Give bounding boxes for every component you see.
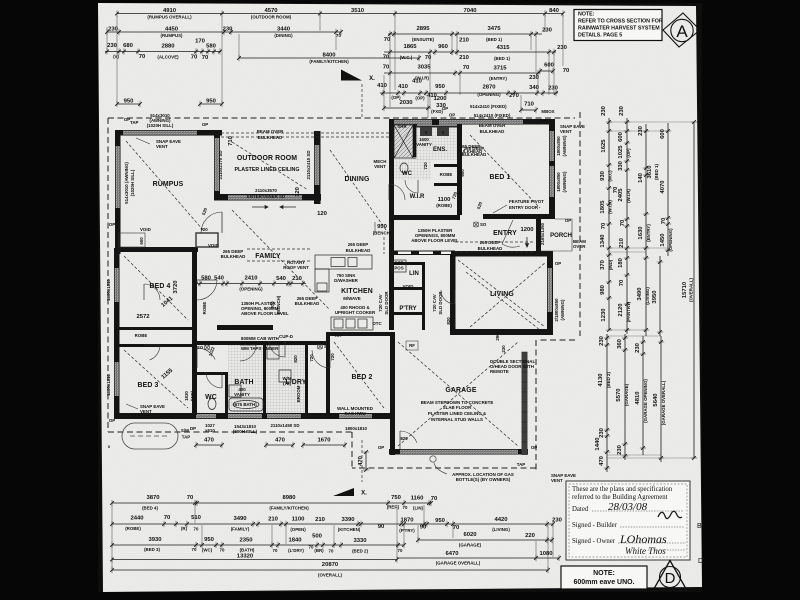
svg-text:90: 90 [378,524,385,530]
top dimension row 3 left [105,39,222,62]
svg-text:8400: 8400 [322,52,336,58]
window 1800x1810 bed3 [115,362,119,396]
svg-text:REFER TO CROSS SECTION FOR: REFER TO CROSS SECTION FOR [578,19,663,25]
svg-text:500: 500 [312,534,323,540]
svg-text:820: 820 [293,355,298,363]
svg-text:FAMILY: FAMILY [255,253,281,260]
feature pivot entry door [502,220,520,247]
window 514x2410 fixed [463,120,523,124]
svg-text:1625: 1625 [601,139,607,153]
svg-text:600: 600 [660,128,666,139]
garage rear door [400,431,417,443]
svg-text:4910: 4910 [163,8,177,14]
svg-text:1800x850: 1800x850 [556,172,561,192]
950 window dims over rumpus [115,98,142,107]
svg-text:70: 70 [187,495,194,501]
svg-text:720: 720 [309,354,314,362]
svg-text:13320: 13320 [237,554,254,560]
svg-text:4070: 4070 [660,180,666,194]
svg-text:2880: 2880 [161,44,175,50]
svg-text:70: 70 [336,33,341,38]
svg-text:90: 90 [420,525,427,531]
window 1543x1810 [228,414,262,418]
svg-text:3490: 3490 [233,516,247,522]
svg-text:2110x3570: 2110x3570 [255,188,277,193]
svg-text:BED 3: BED 3 [137,382,158,389]
svg-text:70: 70 [383,65,390,71]
garage left wall [390,332,395,455]
signature box [566,481,690,560]
svg-text:(OVERALL): (OVERALL) [318,573,342,578]
svg-text:5570: 5570 [616,388,622,402]
west wall rumpus [115,130,121,254]
svg-text:OUTDOOR ROOM: OUTDOOR ROOM [237,155,297,162]
svg-text:ENS.: ENS. [433,147,447,153]
garage door wall [389,449,528,455]
svg-text:950: 950 [435,84,446,90]
svg-text:UPRIGHT COOKER: UPRIGHT COOKER [335,310,376,315]
svg-text:2110x2170 SD: 2110x2170 SD [218,150,223,179]
window 1800x850 a [550,131,554,161]
garage door opening [400,450,518,454]
bath door [240,345,256,361]
bed4/robe wall [114,327,197,330]
svg-text:5640: 5640 [653,393,659,407]
svg-text:SLAB FLOOR: SLAB FLOOR [443,405,472,410]
svg-text:(500H SILL): (500H SILL) [233,429,258,434]
svg-text:ABOVE FLOOR LEVEL: ABOVE FLOOR LEVEL [411,238,459,243]
svg-text:(AWNING): (AWNING) [560,299,565,321]
svg-text:70: 70 [192,547,197,552]
right mid cluster (pantry/lin) [600,252,613,332]
svg-text:B: B [697,523,702,530]
svg-text:290: 290 [495,333,500,341]
svg-text:720: 720 [423,162,428,170]
svg-text:3720: 3720 [173,280,179,294]
svg-text:ROBE: ROBE [135,333,148,338]
svg-text:720: 720 [330,353,335,361]
svg-text:(BED 1): (BED 1) [654,164,659,180]
svg-text:230: 230 [223,26,234,32]
ldry door [269,341,285,357]
entertainer sliding door 2110x3570 [228,195,302,200]
svg-text:580: 580 [206,44,217,50]
bed1 bottom wall (entry) [483,214,549,219]
svg-text:230: 230 [552,518,563,524]
svg-text:RF: RF [409,343,415,348]
svg-text:(WC): (WC) [202,548,213,553]
svg-text:VENT: VENT [374,164,386,169]
svg-text:(W.C): (W.C) [608,170,613,182]
entry side wall [536,219,541,252]
svg-text:(KITCHEN): (KITCHEN) [338,527,361,532]
living left wall [450,251,456,335]
detail marker D [653,561,687,591]
svg-text:ENTRY DOOR: ENTRY DOOR [509,205,539,210]
svg-text:LIVING: LIVING [490,291,514,298]
svg-text:28/03/08: 28/03/08 [608,501,648,513]
dimension extension lines bottom [111,505,113,569]
svg-text:1450: 1450 [660,233,666,247]
svg-text:(P'TRY): (P'TRY) [399,528,415,533]
svg-text:DP: DP [190,426,196,431]
svg-text:(RUMPUS OVERALL): (RUMPUS OVERALL) [147,15,192,20]
svg-text:SLD DOOR: SLD DOOR [438,291,443,315]
svg-text:70: 70 [383,55,390,61]
svg-text:70: 70 [620,219,626,226]
row3 right: 1865/960/4315 [383,44,568,61]
wc door [206,372,222,388]
svg-text:(W.I.R): (W.I.R) [608,200,613,214]
svg-text:230: 230 [635,342,641,353]
svg-text:7040: 7040 [463,8,477,14]
row5: openings [377,79,559,101]
porch slab [541,219,572,251]
svg-text:WC: WC [205,394,217,401]
svg-text:Signed - Owner: Signed - Owner [572,538,616,545]
svg-text:OP: OP [109,222,115,227]
svg-text:210: 210 [315,517,326,523]
ceiling diagonal bed1 [470,135,540,208]
svg-text:INTERNAL STUD WALLS: INTERNAL STUD WALLS [431,417,483,422]
svg-text:70: 70 [403,505,408,510]
svg-text:2870: 2870 [482,85,496,91]
svg-text:1080: 1080 [539,551,553,557]
svg-text:70: 70 [273,548,278,553]
svg-text:3390: 3390 [341,517,355,523]
svg-text:820: 820 [446,317,451,325]
svg-text:270: 270 [509,93,520,99]
svg-text:(OPENING): (OPENING) [477,92,501,97]
svg-text:D: D [698,558,703,565]
svg-text:950: 950 [204,537,215,543]
svg-text:70: 70 [431,496,438,502]
svg-text:(IND): (IND) [608,259,613,270]
svg-text:410: 410 [398,84,409,90]
kitchen bench + sink [315,255,372,269]
svg-text:230: 230 [638,125,644,136]
svg-text:(OPENING): (OPENING) [239,287,263,292]
svg-text:(DINING): (DINING) [274,33,293,38]
svg-text:BROOM: BROOM [296,385,301,402]
svg-text:3035: 3035 [417,65,431,71]
svg-text:OP: OP [202,122,208,127]
svg-text:710: 710 [524,102,535,108]
svg-text:1200: 1200 [433,96,447,102]
bed2/kitchen wall [326,332,390,336]
svg-text:3870: 3870 [146,495,160,501]
section marker X (top) [341,70,362,81]
svg-text:(ALCOVE): (ALCOVE) [157,55,179,60]
svg-text:CUP-D: CUP-D [279,334,293,339]
white paper sheet [98,3,702,592]
hall west wall [192,252,197,415]
svg-text:950: 950 [124,98,135,104]
window over ensuite [392,120,432,124]
svg-text:70: 70 [619,279,625,286]
svg-text:470: 470 [358,455,364,466]
ceiling diagonal rumpus [126,141,203,230]
top dimension row 2 right (ensuite/bed1) [384,26,553,44]
svg-text:4810: 4810 [635,391,641,405]
svg-text:OP: OP [565,218,571,223]
svg-text:referred to the Building Agree: referred to the Building Agreement [572,494,668,501]
window 1027x610 [196,414,216,418]
dimension extension lines right [609,121,694,123]
svg-text:VENT: VENT [560,129,572,134]
svg-text:1840: 1840 [288,538,302,544]
svg-text:230: 230 [617,444,623,455]
ceiling diagonal outdoor [232,142,308,190]
svg-text:960: 960 [438,44,449,50]
right top dim cluster line 3 [638,124,659,252]
bottom dims 6020 garage [416,532,554,548]
ens wc toilet [400,163,408,173]
void nook rumpus [119,233,145,247]
svg-text:A: A [676,22,688,41]
rumpus door [201,212,222,233]
svg-text:BULKHEAD: BULKHEAD [295,301,320,306]
svg-text:230: 230 [599,335,605,346]
svg-text:(FAMILY/KITCHEN): (FAMILY/KITCHEN) [309,59,349,64]
svg-text:OP: OP [555,261,561,266]
ens vanity basins [416,126,457,128]
bottom dims row B [110,515,562,533]
svg-text:TAP: TAP [130,120,139,125]
living top wall [450,251,553,257]
svg-text:P'TRY: P'TRY [399,306,416,312]
svg-text:580: 580 [201,276,212,282]
svg-text:(OPEN): (OPEN) [290,527,306,532]
svg-text:WM TAPS UNDER: WM TAPS UNDER [241,346,279,351]
svg-text:514x3010 (AWNING): 514x3010 (AWNING) [124,162,129,204]
svg-text:70: 70 [191,55,198,61]
svg-text:540: 540 [214,276,225,282]
robe/bed3 wall [114,344,197,347]
svg-text:DINING: DINING [344,176,369,183]
svg-text:(LIVING): (LIVING) [645,287,650,305]
svg-text:X.: X. [361,491,367,497]
svg-text:950: 950 [435,518,446,524]
svg-text:2165x1450: 2165x1450 [540,222,545,245]
svg-text:POS: POS [394,266,403,271]
eave outline dashed [108,112,580,470]
8400 family/kitchen [237,52,421,64]
svg-text:(W.C.): (W.C.) [400,55,413,60]
svg-text:(AWNING): (AWNING) [562,171,567,193]
svg-text:4450: 4450 [165,26,179,32]
garden bed oval bottom left [122,423,178,449]
right overall 15710 [682,120,697,460]
svg-text:V: V [425,130,428,135]
central spine wall (wir/kitchen) [389,119,394,220]
svg-text:(72): (72) [283,381,291,386]
svg-text:W.I.R: W.I.R [410,194,425,200]
svg-text:NOTE:: NOTE: [593,570,615,577]
svg-text:DETAILS. PAGE 5: DETAILS. PAGE 5 [578,33,622,39]
top dimension row 1: overall widths [115,8,565,20]
svg-text:FEATURE PIVOT: FEATURE PIVOT [509,199,544,204]
svg-text:950: 950 [206,98,217,104]
svg-text:4130: 4130 [598,373,604,387]
window 1800x1810 bed2 [339,414,372,418]
bath/ldry divider [263,345,266,415]
svg-text:3490: 3490 [637,287,643,301]
svg-text:70: 70 [661,217,667,224]
bed3 robe door [150,345,161,360]
svg-text:1800x1810: 1800x1810 [106,278,111,301]
svg-text:70: 70 [220,548,225,553]
svg-text:MBOX: MBOX [541,109,554,114]
svg-text:VENT: VENT [551,478,563,483]
bath tub [229,398,263,411]
south outer wall [114,413,392,419]
svg-text:70: 70 [329,549,334,554]
svg-text:120: 120 [317,211,328,217]
svg-text:15710: 15710 [682,281,688,298]
svg-text:820: 820 [400,436,408,441]
svg-text:(REF.): (REF.) [387,505,400,510]
svg-text:D/WASHER: D/WASHER [334,278,358,283]
svg-text:NOTE:: NOTE: [578,12,595,18]
window 514x3010 top [123,131,197,135]
svg-text:(1020H SILL): (1020H SILL) [130,169,135,196]
window 2110x2410 SD [315,145,320,185]
svg-text:70: 70 [202,55,209,61]
svg-text:V: V [442,130,445,135]
svg-text:220: 220 [525,533,536,539]
svg-text:VOID: VOID [403,284,414,289]
svg-text:(FAMILY): (FAMILY) [231,527,250,532]
svg-text:230: 230 [601,105,607,116]
bed3 door [197,348,215,360]
svg-text:3715: 3715 [493,66,507,72]
svg-text:M/WAVE: M/WAVE [343,296,361,301]
svg-text:1340: 1340 [600,234,606,248]
svg-text:OP: OP [442,106,448,111]
svg-text:x610: x610 [205,428,215,433]
svg-text:1800x1810: 1800x1810 [345,426,368,431]
svg-text:BED 1: BED 1 [489,174,510,181]
svg-text:(FAMILY/KITCHEN): (FAMILY/KITCHEN) [269,506,309,511]
svg-text:VANITY: VANITY [234,392,250,397]
svg-text:OP: OP [378,445,384,450]
svg-text:2572: 2572 [136,314,150,320]
laundry trough [279,370,291,382]
svg-text:6020: 6020 [463,532,477,538]
svg-text:1800x850: 1800x850 [556,136,561,156]
svg-text:410: 410 [377,83,388,89]
row6: 2030 / 710 [382,96,554,118]
svg-text:VENT: VENT [156,144,168,149]
svg-text:820: 820 [334,333,342,338]
garage right wall (brick) [522,352,528,455]
svg-text:6470: 6470 [445,551,459,557]
svg-text:(V): (V) [113,54,119,59]
tiled floor bath [228,345,263,413]
outdoor room right wall [314,131,321,204]
svg-text:2440: 2440 [130,516,144,522]
svg-text:X.: X. [369,76,375,82]
living right wall [547,251,553,335]
svg-text:OP: OP [449,113,455,118]
svg-text:370: 370 [600,259,606,270]
note box top right [574,10,662,41]
svg-text:OP: OP [124,117,130,122]
svg-text:(ENSUITE): (ENSUITE) [412,37,434,42]
window 2110x2170 SD [215,138,220,191]
robe nook walls [434,164,460,167]
svg-text:WC: WC [402,171,413,177]
tiled floor ldry [266,345,305,413]
svg-text:BULKHEAD: BULKHEAD [480,129,505,134]
svg-text:840: 840 [549,8,560,14]
section marker X (bottom) [333,488,354,496]
svg-text:PLASTER LINED CEILING &: PLASTER LINED CEILING & [428,411,487,416]
bottom dims row C [110,534,406,554]
ens shower [394,125,413,158]
svg-text:230: 230 [542,28,553,34]
rumpus top wall [115,130,222,136]
svg-text:BEAM OVER: BEAM OVER [257,129,284,134]
ceiling diagonals living [458,260,545,327]
svg-text:70: 70 [309,545,314,550]
west wall bed4/bed3 [114,248,120,418]
bed1/ens top wall [389,119,555,125]
svg-text:514x2410 (FIXED): 514x2410 (FIXED) [470,104,507,109]
svg-text:OVER: OVER [573,244,586,249]
row4 right: 3035 / 3715 [383,63,570,82]
tiled floor ens [394,125,413,158]
svg-text:BOTTLE(S) (BY OWNERS): BOTTLE(S) (BY OWNERS) [456,477,511,482]
right top dim cluster line 4 [660,123,673,256]
svg-text:3475: 3475 [487,26,501,32]
svg-text:20870: 20870 [322,562,339,568]
svg-text:PORCH: PORCH [550,233,572,239]
svg-text:SHR: SHR [397,124,407,129]
window 1800x1810 bed4 [115,268,119,302]
svg-text:VOID: VOID [140,227,151,232]
living bottom wall [450,329,553,335]
svg-text:1160: 1160 [411,496,425,502]
svg-text:230: 230 [557,45,568,51]
bath vanity [229,385,241,397]
void nook right (family side) [196,233,218,247]
wc top wall [197,372,228,375]
right top dim cluster line 2 [618,105,631,252]
svg-text:600: 600 [618,131,624,142]
right top dim cluster line 1 [600,105,619,252]
family-entry divider with openings [392,251,455,256]
bed1 right wall [549,120,555,219]
svg-text:LOhomas: LOhomas [619,532,667,546]
svg-text:(GARAGE): (GARAGE) [624,383,629,406]
svg-text:BULKHEAD: BULKHEAD [221,254,246,259]
svg-text:(BATH): (BATH) [240,548,255,553]
svg-text:2110x1450 SD: 2110x1450 SD [270,423,299,428]
svg-text:(L'DRY): (L'DRY) [288,548,304,553]
svg-text:(ENTRY): (ENTRY) [489,76,507,81]
svg-text:(LIVING): (LIVING) [492,527,510,532]
svg-text:(OPENING): (OPENING) [668,228,673,252]
ens block right wall [457,124,462,215]
svg-text:210: 210 [459,38,470,44]
window position dims under south wall [194,438,347,449]
svg-text:RAINWATER HARVEST SYSTEM: RAINWATER HARVEST SYSTEM [578,26,660,32]
svg-text:S/W: S/W [181,428,190,433]
svg-text:600: 600 [544,63,555,69]
svg-text:(LIN): (LIN) [413,506,424,511]
